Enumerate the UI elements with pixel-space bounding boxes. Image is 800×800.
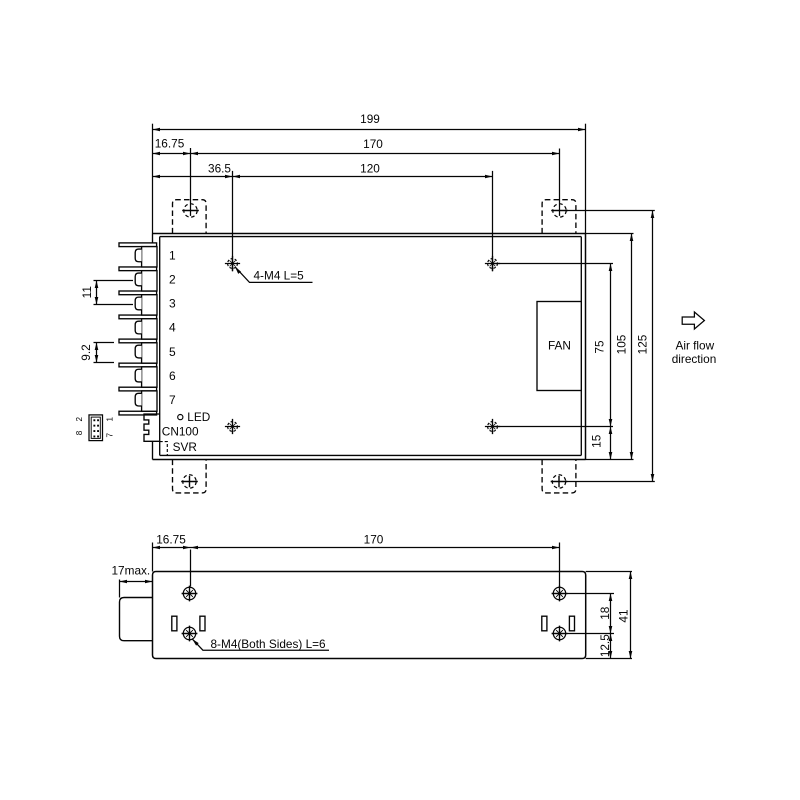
dim 11 ext lines — [94, 281, 134, 305]
CN100 connector body — [89, 415, 103, 441]
4-M4 screw hole top-left — [228, 259, 238, 269]
8-M4 screw hole right-bottom — [553, 627, 565, 639]
dim 17max line — [120, 581, 153, 583]
tab screw slot top-right — [553, 204, 566, 217]
dim 18 bracket — [610, 594, 612, 634]
air flow direction block arrow — [682, 312, 704, 329]
svg-text:16.75: 16.75 — [155, 137, 185, 151]
svg-text:3: 3 — [169, 297, 176, 311]
ext line x=232.5 — [232, 171, 234, 271]
chassis right outer edge — [585, 234, 587, 460]
FAN cutout box — [537, 302, 581, 391]
dim 16.75/170 line — [153, 153, 560, 155]
svg-text:199: 199 — [360, 112, 380, 126]
chassis left edge bottom piece — [152, 441, 154, 459]
terminal block contact bays — [142, 247, 157, 412]
dim 12.5 bracket — [610, 634, 612, 659]
svg-text:9.2: 9.2 — [79, 344, 93, 360]
leader 4-M4 — [235, 267, 313, 283]
svg-text:4-M4 L=5: 4-M4 L=5 — [254, 268, 305, 282]
svg-text:7: 7 — [169, 393, 176, 407]
tab screw slot top-left — [184, 204, 197, 217]
svg-text:18: 18 — [598, 606, 612, 620]
ext line x=559.5 down to screw — [559, 543, 561, 587]
svg-text:120: 120 — [360, 161, 380, 175]
chassis right inner edge — [580, 237, 582, 456]
svg-text:11: 11 — [80, 286, 94, 298]
terminal block fins — [119, 243, 157, 415]
dim 15 bracket — [610, 427, 612, 460]
ext lines right screws — [567, 594, 614, 634]
dim 75 bracket — [610, 264, 612, 427]
dim 16.75/170 line bottom view — [153, 547, 560, 549]
terminal screw bumps — [135, 249, 141, 406]
ext line rect top right — [586, 571, 632, 573]
svg-text:Air flow: Air flow — [675, 338, 714, 352]
dim 11 bracket — [96, 281, 98, 305]
svg-text:105: 105 — [614, 334, 628, 354]
SVR access notch in left wall — [144, 414, 160, 441]
svg-text:LED: LED — [187, 410, 210, 424]
svg-text:6: 6 — [169, 369, 176, 383]
svg-text:41: 41 — [617, 609, 631, 622]
svg-text:170: 170 — [363, 137, 383, 151]
svg-text:2: 2 — [75, 416, 84, 421]
ext line x=190.5 tab screw — [190, 148, 192, 216]
dim 105 bracket — [631, 234, 633, 460]
chassis bottom flange inner edge — [160, 454, 582, 456]
ext lines from 4-M4 screws to right — [493, 264, 614, 427]
text labels bottom view — [112, 533, 631, 658]
mounting tab top-left (dashed) — [173, 200, 207, 234]
dimension lines top view — [94, 124, 655, 482]
dimension arrowheads bottom view — [120, 546, 633, 659]
svg-text:15: 15 — [590, 434, 604, 448]
vent slots — [172, 616, 177, 631]
4-M4 screw hole top-right — [488, 259, 498, 269]
tab screw slot bottom-left — [183, 475, 196, 488]
svg-text:125: 125 — [636, 334, 650, 354]
ext line protrusion left edge up — [119, 580, 121, 598]
chassis left body edge — [159, 237, 161, 456]
svg-text:16.75: 16.75 — [156, 533, 186, 547]
ext lines tab screws to right for 125 — [566, 211, 655, 482]
mounting tab top-right (dashed) — [542, 200, 576, 234]
text labels top view — [75, 112, 716, 454]
8-M4 screw hole right-top — [553, 587, 565, 599]
ext line x=190.5 down to screw — [190, 550, 192, 587]
svg-text:8-M4(Both Sides) L=6: 8-M4(Both Sides) L=6 — [211, 637, 327, 651]
mounting tab bottom-left (dashed) — [173, 460, 207, 493]
tab screw slot bottom-right — [552, 475, 565, 488]
svg-text:2: 2 — [169, 273, 176, 287]
svg-text:SVR: SVR — [173, 440, 197, 454]
svg-text:FAN: FAN — [548, 338, 571, 352]
chassis left edge top piece — [152, 234, 154, 244]
ext line rect left edge up — [152, 543, 154, 572]
svg-text:direction: direction — [672, 352, 717, 366]
svg-text:4: 4 — [169, 321, 176, 335]
svg-text:CN100: CN100 — [162, 425, 199, 439]
bottom view case outline — [153, 572, 586, 659]
dimension arrowheads top view — [95, 128, 655, 482]
svg-text:75: 75 — [592, 340, 606, 354]
8-M4 screw hole left-top — [183, 587, 195, 599]
ext line x=492.5 — [492, 171, 494, 271]
LED indicator circle — [178, 415, 183, 420]
chassis top flange inner edge — [160, 236, 582, 238]
svg-text:1: 1 — [169, 249, 176, 263]
leader 8-M4 — [192, 639, 329, 651]
4-M4 screw hole bottom-left — [228, 422, 238, 432]
SVR potentiometer (hidden, dashed) — [160, 442, 168, 456]
dim 41 bracket — [630, 572, 632, 659]
ext lines chassis edges to right for 105 — [586, 234, 634, 460]
mounting tab bottom-right (dashed) — [542, 460, 576, 493]
svg-text:12.5: 12.5 — [598, 634, 612, 657]
4-M4 screw hole bottom-right — [488, 422, 498, 432]
ext line rect bottom right — [586, 658, 632, 660]
svg-text:5: 5 — [169, 345, 176, 359]
CN100 pins — [93, 419, 99, 437]
svg-text:1: 1 — [105, 416, 114, 421]
chassis bottom flange outer edge — [153, 459, 586, 461]
ext line x=559.5 tab screw — [559, 149, 561, 216]
svg-text:17max.: 17max. — [112, 563, 151, 577]
svg-text:36.5: 36.5 — [208, 161, 231, 175]
dim 36.5/120 line — [153, 176, 493, 178]
dim 199 line — [153, 129, 586, 131]
svg-text:7: 7 — [105, 432, 114, 437]
svg-text:170: 170 — [364, 533, 384, 547]
ext line left x=152.5 — [152, 124, 154, 234]
8-M4 screw hole left-bottom — [183, 627, 195, 639]
ext line right x=585.5 — [585, 124, 587, 234]
svg-text:8: 8 — [75, 430, 84, 435]
chassis top flange outer edge — [153, 233, 586, 235]
dim 9.2 ext lines — [94, 343, 115, 363]
dim 9.2 bracket — [96, 343, 98, 363]
terminal block protrusion (side) — [120, 598, 153, 641]
dim 125 bracket — [652, 211, 654, 482]
